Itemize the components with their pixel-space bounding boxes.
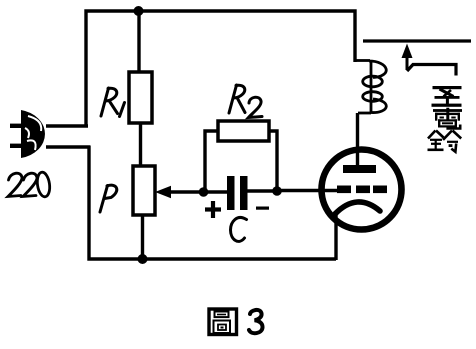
label ling (bell) — [428, 131, 462, 152]
resistor R2 — [218, 121, 269, 141]
potentiometer P — [133, 166, 155, 215]
tube grid dash 3 — [373, 186, 387, 194]
label + — [205, 201, 221, 218]
wire bottom prong to rail — [46, 145, 91, 148]
node junction top — [134, 6, 144, 16]
switch arrow — [406, 50, 409, 70]
plug prong bottom — [10, 144, 22, 148]
wire R2 right leg — [268, 131, 277, 190]
wire top prong to rail — [46, 124, 88, 127]
label R1 — [101, 88, 125, 117]
label zhi (to) — [432, 86, 462, 107]
plug prong top — [10, 124, 22, 128]
mains plug body — [21, 110, 45, 158]
wire top rail — [86, 11, 355, 127]
wire P bottom lead — [141, 214, 144, 259]
wire R1 to P — [139, 122, 142, 166]
label C — [231, 217, 247, 241]
wire R1 top lead — [137, 11, 140, 73]
wire node A to capacitor — [203, 190, 228, 193]
tube plate bar — [343, 165, 376, 173]
node B junction — [272, 186, 282, 196]
label R2 — [229, 85, 262, 118]
node junction bottom — [138, 254, 148, 264]
capacitor C plate + — [227, 176, 235, 210]
wire capacitor to node B — [246, 189, 278, 192]
triode tube envelope U1 — [322, 150, 402, 230]
label P — [100, 185, 117, 212]
bell line upper — [363, 39, 471, 42]
label dian (electric) — [433, 108, 462, 129]
wire cathode lead — [334, 212, 337, 260]
node A junction — [199, 187, 209, 197]
label - — [256, 207, 269, 210]
wire wiper to node A — [166, 190, 205, 193]
capacitor C plate - — [240, 176, 248, 210]
tube grid dash 2 — [356, 186, 370, 194]
wire bottom rail — [89, 146, 336, 259]
wire plate lead — [356, 113, 359, 166]
wire R2 left leg — [205, 131, 218, 190]
relay coil L1 — [355, 61, 386, 114]
plug highlight — [25, 116, 41, 150]
caption number 3 — [249, 310, 263, 333]
wire node B to grid — [277, 189, 338, 192]
bell line lower — [407, 65, 456, 76]
resistor R1 — [129, 72, 152, 123]
caption tu (figure) — [209, 309, 237, 335]
wiper arrow of P — [155, 186, 171, 198]
label 220 — [8, 171, 51, 197]
tube grid dash 1 — [337, 186, 351, 194]
tube cathode arc — [335, 202, 380, 214]
